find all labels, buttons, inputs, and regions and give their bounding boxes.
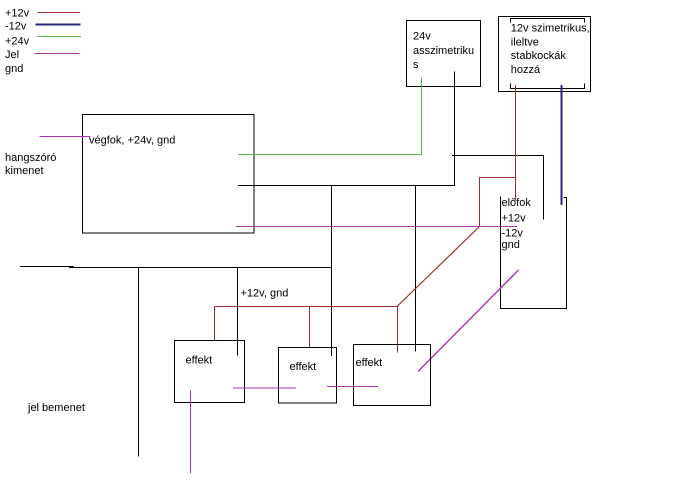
wire +12v drop to effekt E3 (red)	[397, 307, 399, 353]
svg-text:stabkockák: stabkockák	[511, 50, 567, 62]
svg-text:+12v: +12v	[502, 213, 527, 225]
legend label Jel	[5, 49, 19, 61]
wire input bus drop long (black)	[138, 267, 140, 457]
box U2 12v szimetrikus supply	[499, 17, 591, 92]
svg-text:ileltve: ileltve	[511, 36, 539, 48]
wire +24v U1 to U3 horizontal (green)	[238, 154, 422, 156]
wire gnd U1 vertical drop (black)	[454, 72, 456, 186]
svg-text:hangszóró: hangszóró	[5, 152, 56, 164]
svg-text:kimenet: kimenet	[5, 165, 44, 177]
wire +12v branch elbow (red)	[480, 178, 516, 227]
wire hangszoro kimenet Jel (magenta)	[40, 136, 91, 138]
legend label +24v	[5, 36, 30, 48]
wire Jel bus U3 to U4 (magenta)	[236, 226, 517, 228]
wire Jel drop from E1 (magenta)	[190, 390, 192, 473]
svg-text:+12v, gnd: +12v, gnd	[241, 288, 289, 300]
legend label gnd	[5, 63, 23, 75]
wire +12v U2 drop into elofok U4 (red)	[515, 85, 517, 201]
svg-text:végfok, +24v, gnd: végfok, +24v, gnd	[89, 135, 175, 147]
legend wire +24v (green)	[37, 36, 81, 38]
svg-text:effekt: effekt	[290, 361, 317, 373]
wire Jel link E2 to E3 (magenta)	[327, 386, 378, 388]
box U3 vegfok amplifier	[83, 115, 255, 234]
legend wire -12v (blue)	[36, 24, 81, 26]
box U1 24v asszimetrikus supply	[407, 21, 481, 87]
label hangszoro kimenet	[5, 152, 56, 177]
svg-text:Jel: Jel	[5, 49, 19, 61]
wire input bus drop to effekt E1 (black)	[237, 267, 239, 356]
wire +12v drop to effekt E1 (red)	[214, 307, 216, 341]
wire Jel link E1 to E2 (magenta)	[233, 387, 296, 389]
svg-text:-12v: -12v	[5, 21, 27, 33]
svg-text:előfok: előfok	[502, 197, 532, 209]
label U3 vegfok +24v gnd	[89, 135, 175, 147]
svg-text:effekt: effekt	[186, 355, 213, 367]
svg-text:hozzá: hozzá	[511, 64, 541, 76]
svg-text:gnd: gnd	[5, 63, 23, 75]
wire +12v drop to effekt E2 (red)	[309, 307, 311, 348]
box E3 effekt	[354, 345, 431, 406]
svg-text:jel bemenet: jel bemenet	[27, 402, 85, 414]
legend wire +12v (red)	[38, 12, 81, 14]
label +12v gnd bus	[241, 288, 289, 300]
legend label +12v	[5, 8, 30, 20]
box E2 effekt	[279, 348, 337, 404]
wire gnd drop to effekt E3 (black)	[415, 186, 417, 352]
wire -12v U2 drop to elofok U4 (blue)	[561, 85, 563, 205]
svg-text:-12v: -12v	[502, 228, 524, 240]
wire +24v U1 to U3 vertical (green)	[421, 78, 423, 155]
bracket U2 inner top	[511, 19, 585, 23]
label jel bemenet	[27, 402, 85, 414]
svg-text:asszimetriku: asszimetriku	[413, 45, 474, 57]
svg-text:12v szimetrikus,: 12v szimetrikus,	[511, 23, 590, 35]
wire Jel diagonal U4 to effekt E3 (magenta)	[418, 270, 519, 372]
wire input bus horizontal upper segment (black)	[20, 266, 74, 268]
label U4 elofok +12v -12v gnd	[502, 197, 532, 251]
wire input bus horizontal lower segment (black)	[69, 267, 332, 269]
svg-text:+24v: +24v	[5, 36, 30, 48]
box U4 elofok preamp (open top)	[501, 197, 567, 309]
svg-text:effekt: effekt	[356, 357, 383, 369]
bracket U2 inner bottom	[511, 84, 585, 89]
wire +12v bus to effekt row (red)	[215, 306, 398, 308]
box E1 effekt	[175, 341, 245, 403]
wire gnd branch to elofok U4 (black)	[452, 156, 544, 220]
label U1 24v asszimetrikus	[413, 31, 474, 72]
label E1 effekt	[186, 355, 213, 367]
wire gnd bus U3 to U1 drop (black)	[238, 185, 455, 187]
label E2 effekt	[290, 361, 317, 373]
svg-text:24v: 24v	[413, 31, 431, 43]
svg-text:+12v: +12v	[5, 8, 30, 20]
wire +12v diagonal feeder (red)	[397, 227, 480, 307]
wire gnd drop to effekt E2 (black)	[331, 186, 333, 357]
svg-text:gnd: gnd	[502, 239, 520, 251]
legend label -12v	[5, 21, 27, 33]
legend wire Jel (magenta)	[35, 53, 80, 55]
svg-text:s: s	[413, 59, 419, 71]
label E3 effekt	[356, 357, 383, 369]
label U2 12v szimetrikus iletve stabkockak hozza	[511, 23, 590, 76]
